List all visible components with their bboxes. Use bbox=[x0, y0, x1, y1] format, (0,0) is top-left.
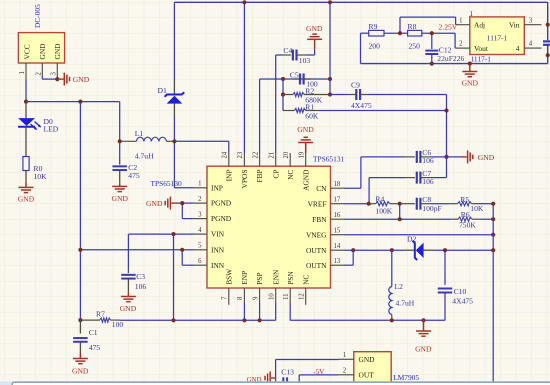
svg-text:4.7uH: 4.7uH bbox=[396, 298, 415, 307]
svg-text:21: 21 bbox=[269, 152, 276, 159]
svg-text:12: 12 bbox=[299, 293, 306, 300]
svg-text:11: 11 bbox=[283, 293, 290, 300]
svg-text:10K: 10K bbox=[470, 204, 484, 213]
U2 pin 1 Adj bbox=[456, 24, 470, 26]
junction pin 9 rail bbox=[258, 318, 262, 322]
ground symbol above C4 bbox=[307, 34, 322, 55]
wire U3 pin1 gnd net bbox=[276, 359, 339, 361]
U1 pin 8 ENP bbox=[243, 288, 245, 303]
svg-text:4X475: 4X475 bbox=[351, 101, 372, 110]
capacitor C5 bbox=[294, 74, 311, 85]
junction R4 C8 FBN bbox=[398, 202, 402, 206]
svg-text:OUT: OUT bbox=[359, 370, 375, 379]
wire pin5-6 join bbox=[182, 249, 193, 251]
ground symbol below C2 bbox=[112, 183, 127, 191]
svg-text:LM7905: LM7905 bbox=[393, 373, 419, 382]
junction VCC rail bbox=[78, 100, 82, 104]
U3 pin 2 bbox=[339, 374, 354, 376]
junction VREF C7 bbox=[367, 202, 371, 206]
resistor R6 bbox=[450, 217, 493, 221]
U1 pin 3 PGND bbox=[193, 218, 207, 220]
svg-text:6: 6 bbox=[198, 258, 202, 265]
svg-text:VNEG: VNEG bbox=[306, 230, 327, 239]
svg-text:Vout: Vout bbox=[474, 44, 489, 53]
svg-text:NC: NC bbox=[286, 169, 295, 179]
wire FBN riser bbox=[399, 204, 401, 220]
wire VPOS to pin 23 bbox=[243, 2, 245, 153]
svg-text:2.25V: 2.25V bbox=[439, 23, 458, 32]
U1 pin 13 OUTN bbox=[331, 264, 345, 266]
resistor R9 body bbox=[369, 30, 384, 36]
svg-text:R1: R1 bbox=[305, 103, 314, 112]
U1 pin 11 PSN bbox=[289, 288, 291, 303]
svg-text:OUTN: OUTN bbox=[306, 261, 327, 270]
svg-text:22: 22 bbox=[252, 151, 259, 158]
U1 pin 6 INN bbox=[193, 264, 207, 266]
capacitor C4 bbox=[284, 50, 315, 61]
junction C12 top bbox=[430, 31, 434, 35]
ground symbol bottom left rotated bbox=[265, 372, 276, 385]
diode D1 zener bbox=[165, 80, 185, 117]
svg-text:106: 106 bbox=[422, 156, 434, 165]
svg-text:-5V: -5V bbox=[313, 367, 325, 376]
wire FBN pin 16 bbox=[344, 218, 450, 220]
svg-text:106: 106 bbox=[135, 282, 147, 291]
junction pin2 gnd bbox=[180, 201, 184, 205]
wire VCC left rail down bbox=[79, 102, 81, 321]
wire CN pin 18 bbox=[344, 187, 361, 189]
svg-text:10: 10 bbox=[269, 293, 276, 300]
svg-text:INN: INN bbox=[211, 261, 225, 270]
svg-text:15: 15 bbox=[334, 228, 341, 235]
wire C9 right down bbox=[446, 95, 448, 178]
junction R7 left bbox=[78, 318, 82, 322]
svg-text:GND: GND bbox=[72, 366, 89, 375]
ground symbol right of J1 bbox=[57, 73, 69, 86]
svg-text:BSW: BSW bbox=[224, 269, 233, 285]
U2 pin 3 Vin bbox=[524, 24, 541, 26]
U1 pin 7 BSW bbox=[228, 288, 230, 305]
LED D0 bbox=[18, 102, 41, 157]
svg-text:22uF226: 22uF226 bbox=[437, 54, 464, 63]
svg-text:GND: GND bbox=[53, 43, 62, 60]
svg-text:C9: C9 bbox=[351, 81, 360, 90]
svg-text:750K: 750K bbox=[459, 221, 476, 230]
svg-text:103: 103 bbox=[299, 56, 311, 65]
svg-text:5: 5 bbox=[198, 243, 202, 250]
ground symbol below L2 rail bbox=[416, 320, 431, 336]
wire right Vin rail bbox=[547, 2, 549, 40]
svg-text:100: 100 bbox=[112, 320, 124, 329]
svg-text:4: 4 bbox=[529, 41, 533, 48]
ground symbol above pin 19 AGND bbox=[298, 137, 313, 153]
svg-text:CN: CN bbox=[316, 184, 327, 193]
junction L1 C2 bbox=[118, 139, 122, 143]
junction D2 vertical bbox=[491, 248, 495, 252]
svg-text:C5: C5 bbox=[290, 70, 299, 79]
svg-text:4: 4 bbox=[516, 44, 520, 53]
svg-text:D2: D2 bbox=[407, 234, 416, 243]
svg-text:NC: NC bbox=[301, 274, 310, 284]
svg-text:Vin: Vin bbox=[509, 20, 520, 29]
junction pin5 bbox=[180, 248, 184, 252]
resistor R1 bbox=[283, 108, 447, 112]
capacitor C2 bbox=[112, 141, 127, 183]
svg-text:13: 13 bbox=[334, 258, 341, 265]
junction L2 top bbox=[390, 248, 394, 252]
junction pins 2-3 bbox=[55, 77, 59, 81]
svg-text:TPS65130: TPS65130 bbox=[151, 179, 183, 188]
wire FBP riser to pin 22 bbox=[259, 79, 261, 153]
U1 pin 9 PSP bbox=[259, 288, 261, 303]
svg-text:8: 8 bbox=[237, 296, 244, 300]
svg-text:1: 1 bbox=[198, 181, 201, 188]
svg-text:PSP: PSP bbox=[255, 272, 264, 284]
svg-text:2: 2 bbox=[343, 367, 347, 374]
junction R9 R8 divider bbox=[398, 31, 402, 35]
svg-text:3: 3 bbox=[198, 211, 202, 218]
U1 pin 4 VIN bbox=[193, 233, 207, 235]
wire VPOS riser right bbox=[329, 2, 331, 94]
svg-text:10K: 10K bbox=[34, 172, 48, 181]
junction right rail pin3 bbox=[546, 23, 550, 27]
junction FBN riser bbox=[398, 217, 402, 221]
R0 bottom pin bbox=[25, 171, 27, 183]
wire 2.25V node bbox=[422, 32, 456, 34]
wire 1117 ground rail bbox=[361, 63, 548, 65]
svg-text:250: 250 bbox=[409, 42, 421, 51]
resistor R0 body bbox=[23, 157, 29, 171]
svg-text:GND: GND bbox=[297, 125, 314, 134]
svg-text:106: 106 bbox=[422, 177, 434, 186]
U2 pin 4 bbox=[524, 47, 541, 49]
wire R9 left to ground rail bbox=[361, 32, 369, 34]
svg-text:TPS65131: TPS65131 bbox=[313, 155, 345, 164]
U2 pin 2 Vout bbox=[455, 47, 470, 49]
svg-text:GND: GND bbox=[146, 199, 163, 208]
svg-text:3: 3 bbox=[529, 17, 533, 24]
svg-text:GND: GND bbox=[306, 24, 323, 33]
wire INN pins 5-6 bbox=[80, 249, 182, 251]
svg-text:18: 18 bbox=[334, 181, 341, 188]
junction R5 vertical bbox=[491, 202, 495, 206]
svg-text:D1: D1 bbox=[158, 86, 167, 95]
wire CP riser to pin 21 bbox=[275, 55, 277, 153]
wire OUTN pin 14 bbox=[344, 249, 406, 251]
bottom window edge bar bbox=[0, 381, 550, 385]
svg-text:C10: C10 bbox=[454, 287, 467, 296]
junction INN rail bbox=[78, 248, 82, 252]
junction right rail below cap bbox=[546, 53, 550, 57]
U1 pin 5 INN bbox=[193, 249, 207, 251]
svg-text:9: 9 bbox=[252, 296, 259, 300]
junction VPOS rail bbox=[242, 0, 246, 4]
capacitor C12 bbox=[431, 33, 433, 49]
wire VNEG pin 15 bbox=[344, 234, 493, 236]
U1 pin 18 CN bbox=[331, 187, 345, 189]
U1 pin 15 VNEG bbox=[331, 234, 345, 236]
svg-text:17: 17 bbox=[334, 197, 341, 204]
U1 pin 16 FBN bbox=[331, 218, 345, 220]
junction pin 8 rail bbox=[242, 318, 246, 322]
resistor R4 bbox=[369, 202, 400, 206]
svg-text:R2: R2 bbox=[305, 87, 314, 96]
svg-text:20: 20 bbox=[283, 151, 290, 158]
svg-text:R7: R7 bbox=[96, 309, 105, 318]
svg-text:24: 24 bbox=[222, 151, 229, 158]
junction D1 L1 node bbox=[172, 139, 176, 143]
svg-text:ENP: ENP bbox=[240, 271, 249, 285]
svg-text:GND: GND bbox=[38, 43, 47, 60]
junction VIN riser bbox=[171, 232, 175, 236]
junction VPOS rail right bbox=[328, 0, 332, 4]
svg-text:INP: INP bbox=[224, 170, 233, 182]
wire pin 8 drop bbox=[243, 303, 245, 320]
resistor R2 bbox=[283, 92, 330, 96]
svg-text:4.7uH: 4.7uH bbox=[135, 152, 154, 161]
wire INP to pin 24 bbox=[174, 140, 228, 142]
svg-text:100K: 100K bbox=[375, 206, 392, 215]
svg-text:19: 19 bbox=[299, 151, 306, 158]
resistor R8 body bbox=[408, 30, 422, 36]
svg-text:CP: CP bbox=[271, 170, 280, 179]
svg-text:3: 3 bbox=[50, 72, 57, 76]
svg-text:200: 200 bbox=[369, 42, 381, 51]
svg-text:R4: R4 bbox=[375, 194, 384, 203]
J1 pin 2 bbox=[41, 63, 43, 76]
wire pin 10 drop bbox=[275, 303, 277, 320]
junction R2 left bbox=[281, 92, 285, 96]
junction pin13-14 bbox=[351, 248, 355, 252]
junction C5 right bbox=[328, 77, 332, 81]
wire VREF pin 17 bbox=[344, 203, 369, 205]
svg-text:VCC: VCC bbox=[23, 44, 32, 59]
wire C3 top bbox=[127, 234, 129, 269]
U1 pin 14 OUTN bbox=[331, 249, 345, 251]
ground symbol right of C6 bbox=[447, 150, 473, 163]
junction R2 right C9 bbox=[328, 92, 332, 96]
svg-text:1: 1 bbox=[459, 17, 462, 24]
svg-text:VPOS: VPOS bbox=[240, 170, 249, 189]
svg-text:VIN: VIN bbox=[211, 230, 225, 239]
junction FBP left divider bbox=[281, 77, 285, 81]
svg-text:GND: GND bbox=[359, 355, 376, 364]
svg-text:60K: 60K bbox=[305, 112, 319, 121]
svg-text:1: 1 bbox=[470, 10, 474, 18]
wire pin 13 join bbox=[352, 250, 354, 265]
svg-text:GND: GND bbox=[478, 153, 495, 162]
svg-text:C4: C4 bbox=[283, 46, 292, 55]
U1 pin 24 INP bbox=[228, 153, 230, 166]
svg-text:2: 2 bbox=[198, 196, 202, 203]
component U1 TPS65131 body bbox=[207, 166, 331, 288]
wire enable rail bbox=[120, 319, 276, 321]
wire D1 to top rail bbox=[173, 2, 175, 80]
svg-text:FBN: FBN bbox=[312, 215, 327, 224]
U1 pin 20 NC bbox=[289, 153, 291, 166]
wire R9-R8 bbox=[384, 32, 408, 34]
component U2 1117-1 body bbox=[470, 17, 525, 55]
junction ground stem 1117 bbox=[468, 62, 472, 66]
wire C4 lead left bbox=[276, 54, 284, 56]
svg-text:R6: R6 bbox=[461, 210, 470, 219]
svg-text:100pF: 100pF bbox=[422, 204, 441, 213]
resistor R7 bbox=[80, 318, 120, 322]
svg-text:4: 4 bbox=[198, 227, 202, 234]
svg-text:GND: GND bbox=[462, 79, 479, 88]
J1 pin 1 bbox=[25, 63, 27, 80]
svg-text:LED: LED bbox=[44, 125, 59, 134]
svg-text:ENN: ENN bbox=[271, 269, 280, 285]
U1 pin 2 PGND bbox=[193, 202, 207, 204]
capacitor C6 bbox=[405, 151, 447, 163]
wire Adj feedback bbox=[399, 17, 401, 33]
resistor R5 bbox=[450, 202, 494, 206]
wire D1 anode down to INP bbox=[173, 117, 175, 188]
svg-text:1117-1: 1117-1 bbox=[487, 33, 508, 42]
U1 pin 1 INP bbox=[193, 187, 207, 189]
svg-text:INN: INN bbox=[211, 245, 225, 254]
junction C12 bottom bbox=[430, 62, 434, 66]
ground symbol below C3 bbox=[121, 292, 136, 301]
capacitor input bypass (right edge) bbox=[543, 41, 550, 44]
wire C7 left riser bbox=[368, 178, 370, 204]
wire VIN pin 4 bbox=[128, 233, 193, 235]
svg-text:2: 2 bbox=[459, 41, 463, 48]
svg-text:OUTN: OUTN bbox=[306, 246, 327, 255]
diode D2 zener bbox=[406, 241, 494, 260]
svg-text:1: 1 bbox=[343, 352, 346, 359]
U1 pin 17 VREF bbox=[331, 203, 345, 205]
junction VNEG vertical bbox=[491, 233, 495, 237]
svg-text:4X475: 4X475 bbox=[452, 296, 473, 305]
wire VCC horizontal bbox=[26, 101, 120, 103]
wire divider left riser bbox=[282, 79, 284, 111]
U1 pin 12 NC bbox=[305, 288, 307, 305]
wire VCC from J1 pin1 bbox=[25, 80, 27, 102]
junction gnd stem L2 rail bbox=[421, 318, 425, 322]
wire VNEG rail down bbox=[492, 204, 494, 385]
capacitor C13 bbox=[283, 377, 287, 383]
junction C6 gnd node bbox=[444, 155, 448, 159]
ground symbol below C1 bbox=[73, 354, 88, 364]
capacitor C7 bbox=[369, 172, 446, 184]
svg-text:FBP: FBP bbox=[255, 170, 264, 183]
svg-text:GND: GND bbox=[111, 194, 128, 203]
U1 pin 21 CP bbox=[275, 153, 277, 166]
wire to pin 1 INP bbox=[174, 187, 193, 189]
junction R6 vertical bbox=[491, 217, 495, 221]
U1 pin 22 FBP bbox=[259, 153, 261, 166]
wire top VPOS rail bbox=[174, 1, 547, 3]
svg-text:VREF: VREF bbox=[308, 199, 327, 208]
ground symbol left of pin 2 bbox=[165, 197, 182, 210]
wire U3 pin2 -5V bbox=[299, 374, 338, 376]
wire J1 pins 2-3 join bbox=[41, 76, 43, 79]
U1 pin 23 VPOS bbox=[243, 153, 245, 166]
svg-text:L2: L2 bbox=[395, 282, 404, 291]
svg-text:DC-005: DC-005 bbox=[33, 4, 42, 28]
svg-text:R8: R8 bbox=[408, 22, 417, 31]
capacitor C3 bbox=[121, 269, 135, 293]
svg-text:PGND: PGND bbox=[211, 214, 232, 223]
junction C10 top bbox=[443, 248, 447, 252]
wire pins 2-3 join bbox=[182, 202, 193, 204]
junction VCC node bbox=[24, 100, 28, 104]
svg-text:475: 475 bbox=[89, 343, 101, 352]
svg-text:GND: GND bbox=[120, 304, 137, 313]
svg-text:GND: GND bbox=[415, 345, 432, 354]
wire pin 9 drop bbox=[259, 303, 261, 320]
svg-text:INP: INP bbox=[211, 183, 223, 192]
U1 pin 10 ENN bbox=[275, 288, 277, 303]
svg-text:R5: R5 bbox=[460, 195, 469, 204]
J1 pin 3 bbox=[56, 63, 58, 76]
svg-text:PGND: PGND bbox=[211, 199, 232, 208]
U3 pin 1 bbox=[339, 358, 354, 360]
svg-text:GND: GND bbox=[18, 195, 35, 204]
svg-text:C13: C13 bbox=[281, 368, 294, 377]
svg-text:2: 2 bbox=[35, 72, 42, 76]
svg-text:C3: C3 bbox=[136, 272, 145, 281]
junction VIN riser bottom bbox=[171, 318, 175, 322]
svg-text:14: 14 bbox=[334, 243, 341, 250]
wire FBP node horizontal bbox=[260, 78, 330, 80]
U1 pin 19 AGND bbox=[305, 153, 307, 166]
svg-text:L1: L1 bbox=[135, 129, 144, 138]
svg-text:C8: C8 bbox=[422, 195, 431, 204]
inductor L1 bbox=[120, 137, 175, 141]
capacitor C8 bbox=[400, 198, 450, 210]
svg-text:1: 1 bbox=[19, 71, 26, 74]
wire VIN riser down bbox=[173, 234, 175, 320]
junction L2 bottom bbox=[390, 318, 394, 322]
svg-text:1117-1: 1117-1 bbox=[471, 54, 492, 63]
svg-text:23: 23 bbox=[237, 151, 244, 158]
wire VCC down to L1 bbox=[119, 102, 121, 142]
ground symbol below 1117 bbox=[462, 64, 477, 77]
junction R1 right bbox=[444, 108, 448, 112]
capacitor C1 bbox=[73, 320, 88, 354]
svg-text:Adj: Adj bbox=[474, 20, 485, 29]
svg-text:475: 475 bbox=[128, 171, 140, 180]
wire PSN pin 11 bbox=[289, 303, 291, 320]
svg-text:C1: C1 bbox=[89, 328, 98, 337]
svg-text:GND: GND bbox=[73, 75, 90, 84]
svg-text:AGND: AGND bbox=[301, 169, 310, 191]
capacitor C9 bbox=[330, 89, 447, 100]
svg-text:7: 7 bbox=[222, 296, 229, 300]
inductor L2 bbox=[389, 250, 392, 320]
capacitor C10 bbox=[438, 250, 453, 320]
svg-text:16: 16 bbox=[334, 212, 341, 219]
ground symbol below R0 bbox=[19, 182, 34, 192]
svg-text:R9: R9 bbox=[369, 22, 378, 31]
svg-text:PSN: PSN bbox=[286, 271, 295, 285]
component J1 DC-005 body bbox=[18, 33, 64, 63]
component U3 LM7905 body bbox=[354, 352, 391, 383]
